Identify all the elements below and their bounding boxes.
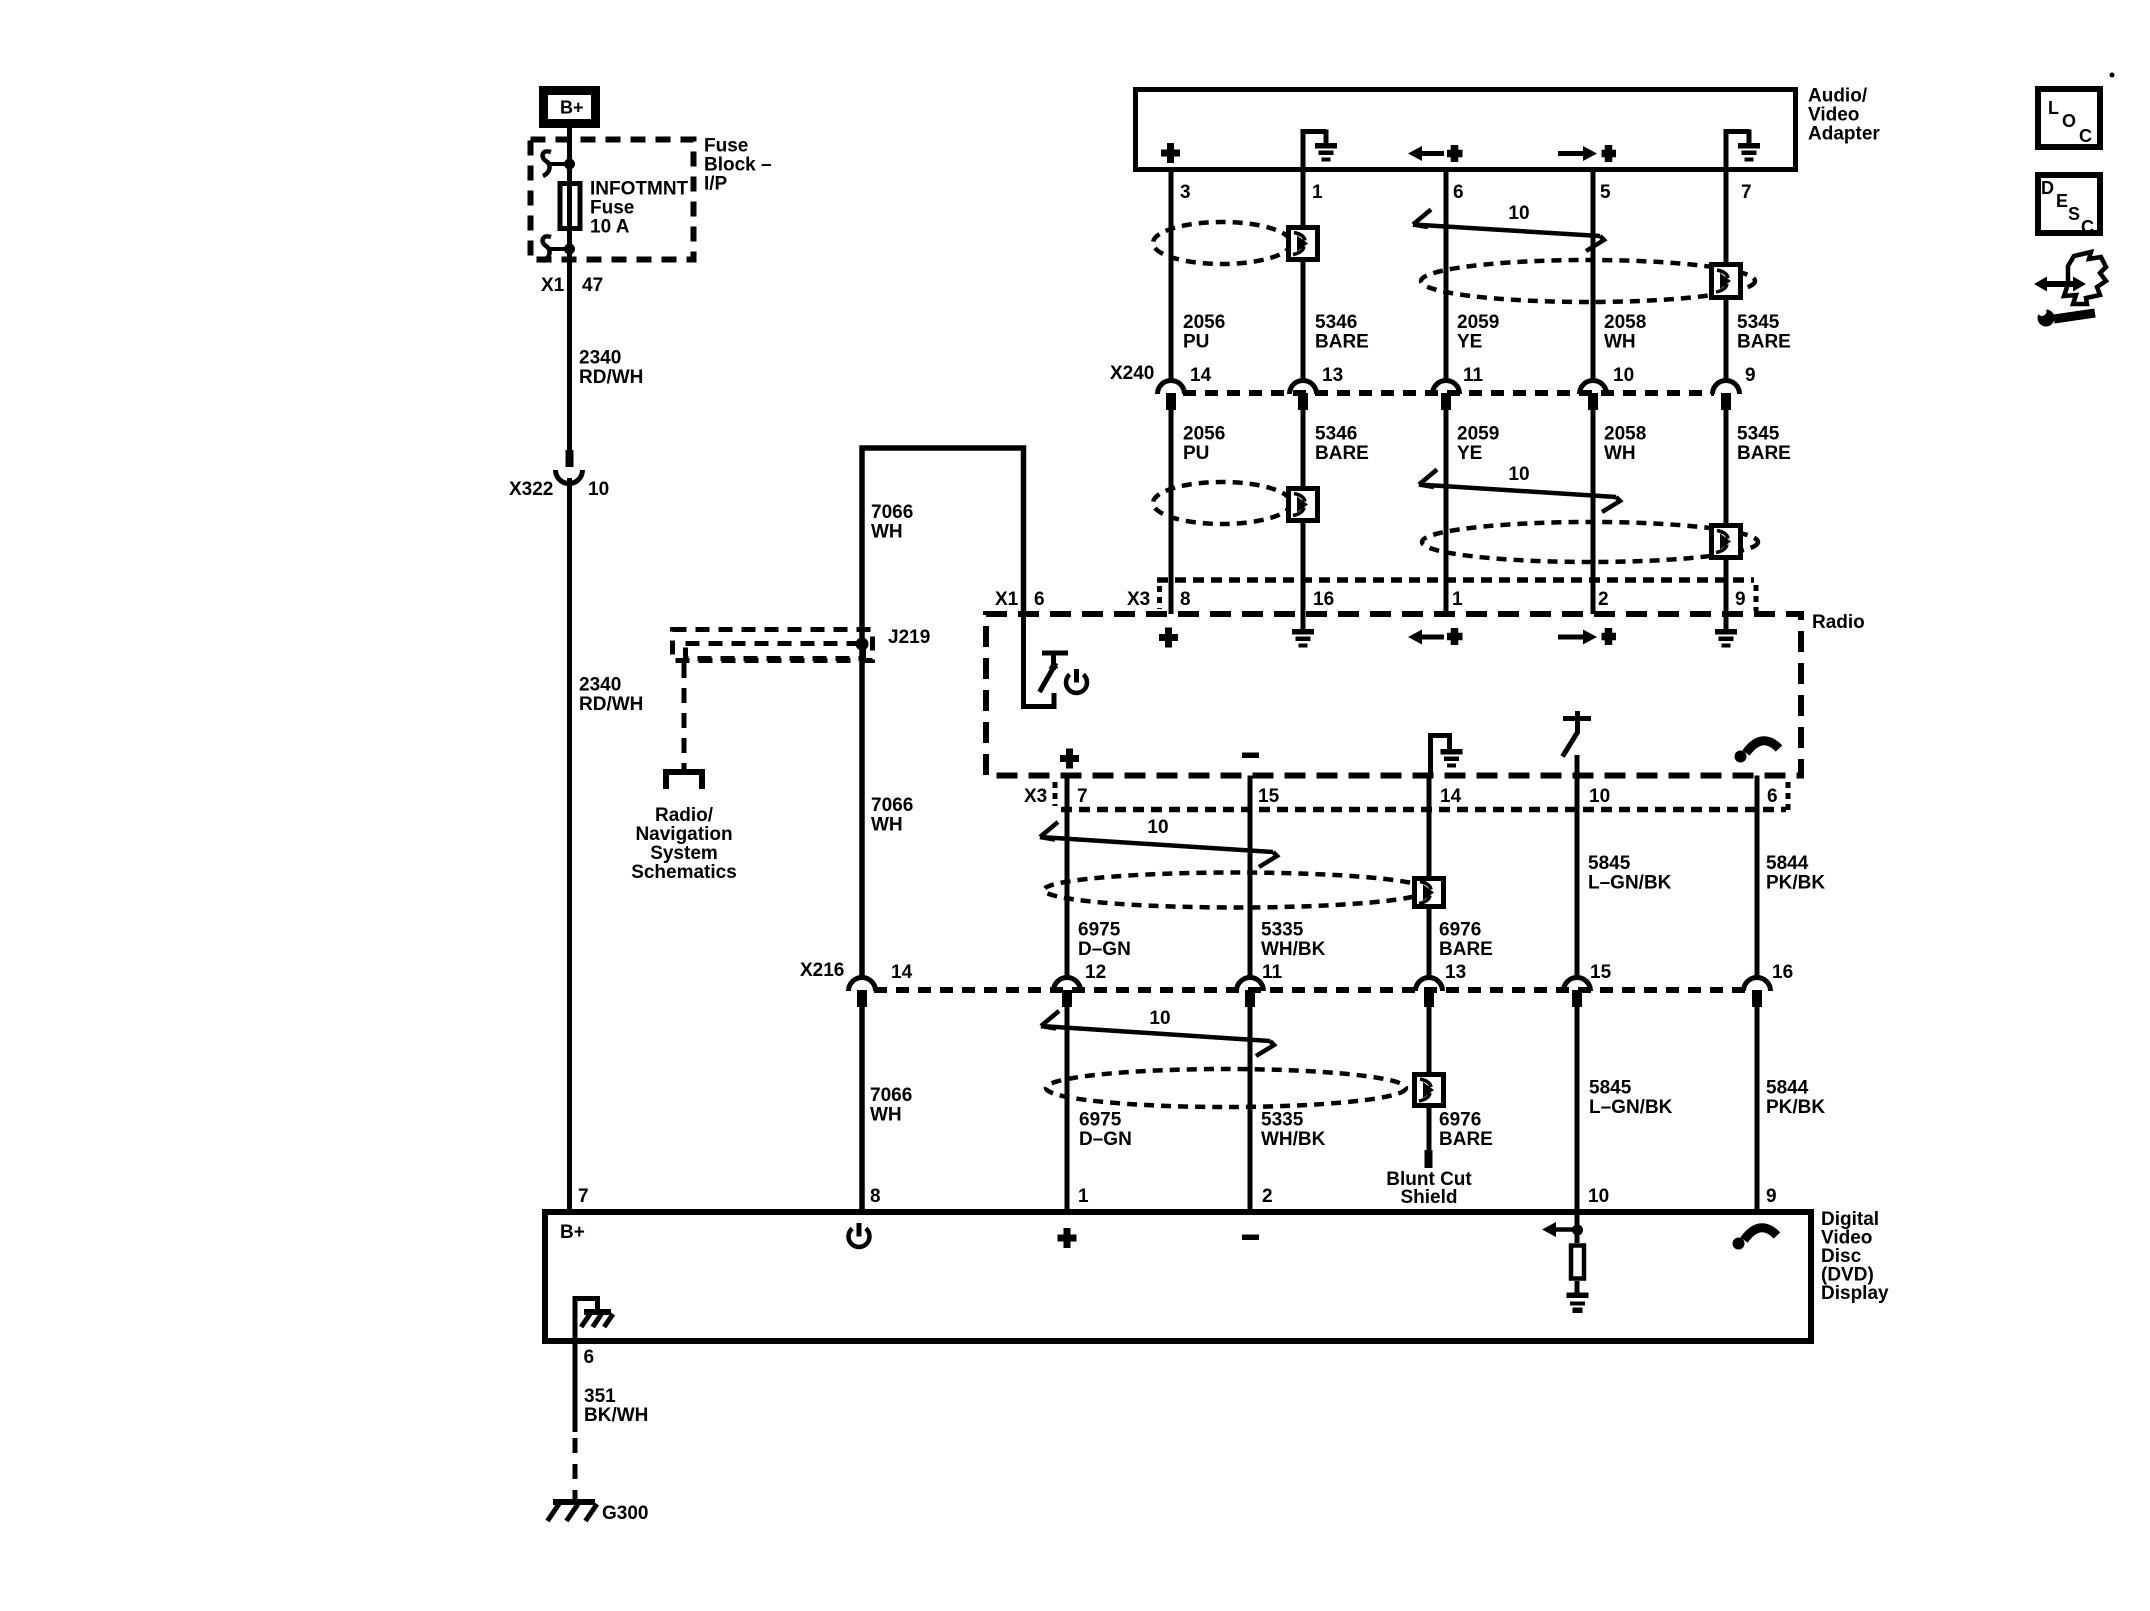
- ground symbol radio pin 14: [1431, 736, 1463, 776]
- audio/video adapter box: [1136, 90, 1796, 170]
- X216 terminal pin 15: [1564, 962, 1612, 1007]
- svg-text:B+: B+: [560, 98, 584, 118]
- wire 5845 label lower: [1589, 1078, 1673, 1119]
- wire 5345 BARE seg2: [1724, 410, 1729, 630]
- shield termination box on 6976 fourth: [1415, 1075, 1444, 1106]
- ground symbol AV pin 7: [1726, 130, 1760, 162]
- plus symbol radio pin 7: [1060, 749, 1079, 769]
- audio/video adapter label: [1808, 86, 1880, 145]
- power symbol icon radio: [1066, 669, 1087, 693]
- svg-text:15: 15: [1590, 962, 1612, 983]
- svg-text:10: 10: [1149, 1008, 1170, 1029]
- video out arrow-plus AV pin 5: [1558, 145, 1616, 162]
- LOC legend box: [2038, 89, 2100, 147]
- svg-text:14: 14: [891, 962, 913, 983]
- wire 7066 WH label 3: [870, 1085, 912, 1126]
- wire 2059 YE seg1: [1444, 172, 1449, 381]
- svg-text:10: 10: [1613, 365, 1634, 386]
- wire 351 BK/WH label: [584, 1386, 648, 1426]
- svg-text:5844: 5844: [1766, 853, 1809, 874]
- X216 label: [800, 960, 844, 981]
- resistor in DVD dimming circuit: [1571, 1246, 1584, 1279]
- wire 7066 WH label 2: [871, 795, 913, 836]
- svg-text:O: O: [2062, 111, 2076, 131]
- svg-text:12: 12: [1085, 962, 1106, 983]
- svg-text:WH/BK: WH/BK: [1261, 1129, 1326, 1150]
- X240 terminal pin 10: [1580, 365, 1635, 410]
- svg-text:I/P: I/P: [704, 174, 728, 195]
- twisted pair indicator 10 turns fourth: [1041, 1008, 1274, 1056]
- wire labels row 2: [1183, 424, 1791, 465]
- wire 2056 PU seg2: [1169, 410, 1174, 614]
- bus attachment hook bottom: [543, 236, 575, 261]
- fuse block label: [704, 136, 772, 195]
- svg-text:S: S: [2068, 204, 2080, 224]
- display control symbol radio pin 10: [1563, 711, 1592, 776]
- svg-text:6976: 6976: [1439, 1110, 1481, 1131]
- twisted pair indicator 10 turns top: [1413, 203, 1604, 251]
- X216 terminal pin 13: [1416, 962, 1467, 1007]
- svg-text:YE: YE: [1457, 443, 1482, 464]
- splice J219 harness inner dashed box: [686, 644, 864, 659]
- ground symbol AV pin 1: [1303, 130, 1337, 162]
- DVD pin number labels: [870, 1186, 1777, 1207]
- X3 top label and pins: [1127, 589, 1746, 610]
- svg-text:C: C: [2081, 217, 2094, 237]
- svg-text:2059: 2059: [1457, 424, 1499, 445]
- wire B+ feed into fuse block: [567, 128, 572, 452]
- svg-text:PK/BK: PK/BK: [1766, 1097, 1825, 1118]
- fuse INFOTMNT 10 A: [560, 184, 580, 229]
- connector X216 dashed line: [874, 987, 1745, 993]
- shield termination box on 5346 second: [1289, 489, 1318, 521]
- svg-text:5844: 5844: [1766, 1078, 1809, 1099]
- svg-text:Display: Display: [1821, 1283, 1889, 1304]
- svg-text:6975: 6975: [1079, 1110, 1122, 1131]
- svg-text:6: 6: [1034, 589, 1045, 610]
- svg-text:5845: 5845: [1588, 853, 1631, 874]
- video in arrow-plus AV pin 6: [1408, 145, 1463, 162]
- X216 terminal pin 12: [1054, 962, 1107, 1007]
- svg-text:2058: 2058: [1604, 424, 1646, 445]
- svg-text:7066: 7066: [870, 1085, 912, 1106]
- svg-text:Radio: Radio: [1812, 612, 1865, 633]
- svg-text:X240: X240: [1110, 363, 1154, 384]
- wire 5346 BARE seg1: [1301, 129, 1306, 381]
- svg-text:YE: YE: [1457, 332, 1482, 353]
- power symbol icon DVD pin 8: [849, 1223, 870, 1247]
- shield ellipse pair 2059/2058 top: [1421, 260, 1755, 302]
- connector X240 dashed line: [1183, 390, 1714, 396]
- splice J219 junction dot: [856, 638, 869, 651]
- svg-text:16: 16: [1313, 589, 1334, 610]
- svg-text:10: 10: [1147, 817, 1168, 838]
- svg-text:7066: 7066: [871, 795, 913, 816]
- X240 terminal pin 13: [1290, 365, 1344, 410]
- wire 2056 PU seg1: [1169, 172, 1174, 381]
- svg-text:G300: G300: [602, 1503, 648, 1524]
- svg-text:2: 2: [1262, 1186, 1273, 1207]
- svg-text:2058: 2058: [1604, 312, 1646, 333]
- svg-text:9: 9: [1745, 365, 1756, 386]
- connector X322 labels: [509, 479, 609, 500]
- svg-text:Block –: Block –: [704, 155, 772, 176]
- wire 2340 RD/WH label upper: [579, 348, 643, 389]
- svg-text:2059: 2059: [1457, 312, 1499, 333]
- wire 351 BK/WH: [573, 1344, 578, 1502]
- svg-text:5345: 5345: [1737, 312, 1780, 333]
- X240 terminal pin 14: [1158, 365, 1212, 410]
- X240 terminal pin 9: [1713, 365, 1756, 410]
- blunt cut shield label: [1386, 1169, 1472, 1208]
- X216 terminal pin 16: [1744, 962, 1794, 1007]
- svg-text:BARE: BARE: [1737, 443, 1791, 464]
- connector X3 radio bottom dotted line: [1055, 782, 1788, 810]
- svg-text:47: 47: [582, 275, 603, 296]
- wire 5346 BARE seg2: [1301, 410, 1306, 630]
- X216 terminal pin 11: [1237, 962, 1283, 1007]
- svg-text:C: C: [2079, 126, 2092, 146]
- svg-text:16: 16: [1772, 962, 1793, 983]
- wire 7066 WH main run: [862, 448, 1024, 1209]
- radio power switch wire from X1 pin 6: [1024, 612, 1055, 707]
- svg-text:BK/WH: BK/WH: [584, 1405, 648, 1426]
- shield termination box on 5345 top: [1712, 265, 1741, 298]
- svg-text:8: 8: [870, 1186, 881, 1207]
- AV pin number labels: [1180, 182, 1752, 203]
- svg-text:X322: X322: [509, 479, 553, 500]
- shield ellipse pair 2056/5346 second: [1153, 482, 1291, 524]
- wire 5845 label upper: [1588, 853, 1672, 894]
- wire 5335 WH/BK seg2: [1248, 1007, 1253, 1209]
- svg-text:5335: 5335: [1261, 1110, 1304, 1131]
- svg-text:WH: WH: [871, 815, 903, 836]
- fuse block I/P dashed box: [531, 140, 694, 260]
- svg-text:7: 7: [1077, 786, 1088, 807]
- svg-text:10: 10: [1508, 464, 1529, 485]
- svg-text:5335: 5335: [1261, 920, 1304, 941]
- DESC legend box: [2038, 175, 2100, 237]
- svg-text:X1: X1: [541, 275, 565, 296]
- svg-text:6: 6: [1453, 182, 1464, 203]
- wire 5844 label upper: [1766, 853, 1825, 894]
- svg-text:WH: WH: [1604, 332, 1636, 353]
- wire 5844 PK/BK seg1: [1755, 776, 1760, 979]
- shield ellipse pair 6975/5335 third: [1044, 873, 1428, 908]
- plus symbol DVD pin 1: [1058, 1228, 1077, 1248]
- bus attachment hook top: [543, 151, 575, 176]
- shield ellipse pair 6975/5335 fourth: [1046, 1069, 1406, 1107]
- wire 6975 D-GN seg2: [1065, 1007, 1070, 1209]
- svg-text:D–GN: D–GN: [1078, 939, 1131, 960]
- DVD pin 6 label: [584, 1347, 595, 1368]
- svg-text:Video: Video: [1808, 105, 1859, 126]
- svg-text:8: 8: [1180, 589, 1191, 610]
- radio dashed box: [986, 614, 1801, 776]
- wire labels row 1: [1183, 312, 1791, 353]
- svg-text:BARE: BARE: [1737, 332, 1791, 353]
- chassis ground symbol inside DVD: [581, 1312, 613, 1327]
- svg-text:D: D: [2041, 178, 2054, 198]
- svg-text:WH: WH: [871, 522, 903, 543]
- off-page reference bracket: [666, 772, 702, 789]
- wire labels mid row: [1078, 920, 1493, 961]
- svg-text:WH: WH: [1604, 443, 1636, 464]
- svg-text:5: 5: [1600, 182, 1611, 203]
- digital video disc display box: [545, 1212, 1811, 1341]
- DVD pin 7 label: [578, 1186, 589, 1207]
- svg-text:13: 13: [1445, 962, 1466, 983]
- wire labels lower row: [1079, 1110, 1493, 1151]
- svg-text:6975: 6975: [1078, 920, 1121, 941]
- wire 5845 L-GN/BK seg1: [1575, 776, 1580, 979]
- G300 label: [602, 1503, 648, 1524]
- svg-text:BARE: BARE: [1315, 443, 1369, 464]
- svg-text:1: 1: [1452, 589, 1463, 610]
- svg-text:L: L: [2048, 98, 2059, 118]
- svg-text:11: 11: [1262, 962, 1283, 983]
- svg-text:Fuse: Fuse: [704, 136, 748, 157]
- svg-text:2056: 2056: [1183, 312, 1225, 333]
- wire 5345 BARE seg1: [1724, 129, 1729, 381]
- X3 bottom label and pins: [1024, 786, 1778, 807]
- svg-text:Adapter: Adapter: [1808, 124, 1880, 145]
- splice J219 harness outer dashed box: [673, 630, 873, 661]
- svg-text:10: 10: [588, 479, 609, 500]
- wire 5844 PK/BK seg2: [1755, 1007, 1760, 1209]
- svg-text:351: 351: [584, 1386, 616, 1407]
- X240 label: [1110, 363, 1154, 384]
- shield termination box on 6976 third: [1415, 879, 1444, 907]
- svg-text:PU: PU: [1183, 332, 1209, 353]
- svg-text:WH: WH: [870, 1105, 902, 1126]
- wire 2058 WH seg2: [1591, 410, 1596, 614]
- svg-text:1: 1: [1078, 1186, 1089, 1207]
- svg-text:2340: 2340: [579, 675, 621, 696]
- minus symbol radio pin 15: [1242, 753, 1259, 759]
- phone symbol DVD pin 9: [1733, 1228, 1778, 1250]
- svg-text:1: 1: [1312, 182, 1323, 203]
- svg-text:5346: 5346: [1315, 424, 1357, 445]
- svg-text:3: 3: [1180, 182, 1191, 203]
- radio label: [1812, 612, 1865, 633]
- X216 terminal pin 14: [849, 962, 913, 1007]
- wire 5844 label lower: [1766, 1078, 1825, 1119]
- svg-text:6: 6: [584, 1347, 595, 1368]
- svg-text:BARE: BARE: [1315, 332, 1369, 353]
- svg-text:13: 13: [1322, 365, 1343, 386]
- svg-text:2056: 2056: [1183, 424, 1225, 445]
- plus symbol radio pin 8: [1159, 628, 1178, 648]
- svg-text:Shield: Shield: [1400, 1187, 1457, 1208]
- wire 5335 WH/BK seg1: [1248, 776, 1253, 979]
- shield ellipse pair 2059/2058 second: [1422, 522, 1758, 562]
- svg-text:6: 6: [1767, 786, 1778, 807]
- wire 7066 WH label 1: [871, 502, 913, 543]
- svg-text:9: 9: [1766, 1186, 1777, 1207]
- dimming input arrow DVD pin 10: [1542, 1215, 1583, 1243]
- wire 5845 L-GN/BK seg2: [1575, 1007, 1580, 1209]
- svg-text:PU: PU: [1183, 443, 1209, 464]
- wire 2340 RD/WH to DVD display: [567, 478, 572, 1209]
- ground symbol below resistor: [1567, 1281, 1589, 1313]
- svg-text:X3: X3: [1127, 589, 1150, 610]
- twisted pair indicator 10 turns third: [1040, 817, 1277, 867]
- svg-text:10: 10: [1589, 786, 1610, 807]
- B+ terminal label in DVD: [560, 1222, 585, 1243]
- svg-text:BARE: BARE: [1439, 939, 1493, 960]
- svg-text:System: System: [650, 843, 718, 864]
- svg-text:BARE: BARE: [1439, 1129, 1493, 1150]
- svg-text:X216: X216: [800, 960, 844, 981]
- svg-text:9: 9: [1735, 589, 1746, 610]
- page mark dot: [2110, 73, 2115, 78]
- plus symbol AV pin 3: [1161, 143, 1180, 163]
- shield ellipse pair 2056/5346 top: [1153, 222, 1291, 264]
- X240 terminal pin 11: [1433, 365, 1484, 410]
- svg-text:INFOTMNT: INFOTMNT: [590, 179, 689, 200]
- in-line connector X322 pin 10: [556, 450, 583, 484]
- svg-text:5346: 5346: [1315, 312, 1357, 333]
- svg-text:Fuse: Fuse: [590, 198, 634, 219]
- svg-text:7066: 7066: [871, 502, 913, 523]
- svg-text:7: 7: [1741, 182, 1752, 203]
- svg-text:Schematics: Schematics: [631, 862, 737, 883]
- wire 2059 YE seg2: [1444, 410, 1449, 614]
- svg-text:RD/WH: RD/WH: [579, 694, 643, 715]
- svg-text:10: 10: [1588, 1186, 1609, 1207]
- svg-text:5845: 5845: [1589, 1078, 1632, 1099]
- minus symbol DVD pin 2: [1242, 1235, 1259, 1241]
- radio power switch blade: [1040, 651, 1069, 693]
- svg-text:11: 11: [1463, 365, 1484, 386]
- svg-text:14: 14: [1440, 786, 1462, 807]
- svg-text:PK/BK: PK/BK: [1766, 873, 1825, 894]
- video out arrow-plus radio pin 2: [1558, 628, 1616, 645]
- svg-text:L–GN/BK: L–GN/BK: [1588, 873, 1672, 894]
- ground symbol radio pin 16: [1292, 629, 1314, 648]
- svg-text:15: 15: [1258, 786, 1280, 807]
- svg-text:7: 7: [578, 1186, 589, 1207]
- dashed reference wire to other schematic: [682, 663, 687, 770]
- svg-text:Audio/: Audio/: [1808, 86, 1868, 107]
- svg-text:X3: X3: [1024, 786, 1047, 807]
- shield termination box on 5346 top: [1289, 228, 1318, 260]
- connector repair icon: [2034, 252, 2106, 327]
- ground G300 symbol: [547, 1502, 597, 1521]
- connector X3 radio top dotted line: [1157, 580, 1756, 611]
- connector X1 pin 6 labels at radio: [995, 589, 1045, 610]
- video in arrow-plus radio pin 1: [1408, 628, 1463, 645]
- svg-text:10: 10: [1508, 203, 1529, 224]
- ground symbol radio pin 9: [1715, 629, 1737, 648]
- svg-text:6976: 6976: [1439, 920, 1481, 941]
- svg-text:Radio/: Radio/: [655, 805, 714, 826]
- svg-text:10 A: 10 A: [590, 217, 630, 238]
- phone symbol radio pin 6: [1735, 741, 1780, 763]
- battery feed B+ symbol: [544, 91, 596, 124]
- svg-text:2340: 2340: [579, 348, 621, 369]
- wire 2058 WH seg1: [1591, 172, 1596, 381]
- wire 6976 BARE seg1: [1427, 776, 1432, 979]
- svg-text:J219: J219: [888, 627, 930, 648]
- svg-text:5345: 5345: [1737, 424, 1780, 445]
- svg-text:Navigation: Navigation: [635, 824, 732, 845]
- wire 6975 D-GN seg1: [1065, 776, 1070, 979]
- J219 label: [888, 627, 930, 648]
- svg-text:L–GN/BK: L–GN/BK: [1589, 1097, 1673, 1118]
- connector X1 pin 47 labels: [541, 275, 603, 296]
- reference text Radio/Navigation System Schematics: [631, 805, 737, 883]
- svg-text:WH/BK: WH/BK: [1261, 939, 1326, 960]
- chassis ground wire inside DVD: [575, 1299, 598, 1341]
- svg-text:E: E: [2056, 191, 2068, 211]
- svg-text:2: 2: [1598, 589, 1609, 610]
- twisted pair indicator 10 turns second: [1419, 464, 1620, 512]
- svg-text:D–GN: D–GN: [1079, 1129, 1132, 1150]
- svg-text:14: 14: [1190, 365, 1212, 386]
- DVD display label: [1821, 1209, 1889, 1304]
- svg-text:RD/WH: RD/WH: [579, 367, 643, 388]
- svg-text:B+: B+: [560, 1222, 585, 1243]
- wire 2340 RD/WH label lower: [579, 675, 643, 716]
- fuse value label: [590, 179, 689, 238]
- wire 6976 BARE seg2 blunt cut: [1425, 1007, 1433, 1168]
- svg-text:X1: X1: [995, 589, 1019, 610]
- shield termination box on 5345 second: [1712, 526, 1741, 558]
